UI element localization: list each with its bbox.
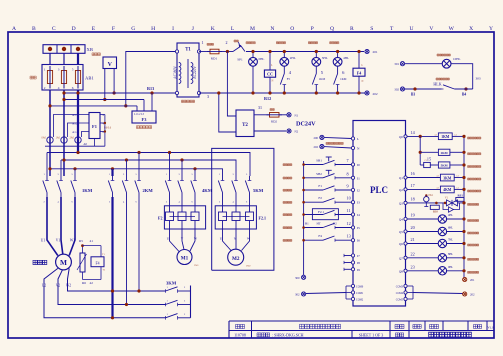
resistor R11 <box>456 198 464 202</box>
terminal 201 output <box>463 277 467 281</box>
breaker AB1 <box>42 65 83 91</box>
switch F2.1 <box>323 210 335 214</box>
svg-text:SP1: SP1 <box>237 58 243 62</box>
title text row1 <box>236 324 245 328</box>
wire input row 12 <box>304 227 323 229</box>
switch HT <box>323 223 335 227</box>
coil 3KM <box>440 174 454 181</box>
svg-text:I6: I6 <box>357 239 360 243</box>
wire F2.1 element 249.5 <box>249 197 251 212</box>
lamp 4HL <box>333 57 342 66</box>
wire V lead 1 <box>104 69 106 100</box>
svg-text:W2: W2 <box>66 284 71 288</box>
contact 1KM pole1 <box>46 176 48 181</box>
fuse RD1 <box>210 49 219 54</box>
terminal 202 input <box>320 145 324 149</box>
svg-text:R13: R13 <box>147 86 154 91</box>
fuse element AB1-2 <box>61 71 66 84</box>
contact 5KM pole1 <box>222 176 224 181</box>
thyristor V2 <box>449 207 454 212</box>
svg-text:B1: B1 <box>305 222 309 226</box>
wire F2.1 element 236 <box>235 197 237 212</box>
node L2 in <box>62 47 66 51</box>
wire 3KM star bar <box>190 286 192 318</box>
wire control bus bottom <box>199 92 365 94</box>
PLC pin Q6 <box>404 242 407 245</box>
wire Q0 branch down <box>419 136 421 165</box>
svg-text:L1 L2 L3: L1 L2 L3 <box>134 113 145 116</box>
wire M2 leads <box>223 233 232 251</box>
coil 5KM <box>438 162 450 168</box>
svg-text:F4: F4 <box>357 71 361 76</box>
svg-text:4KM: 4KM <box>443 188 452 192</box>
svg-text:M: M <box>250 26 255 32</box>
wire XB to AB1 phase3 <box>77 53 79 64</box>
wire 4KM coil to rail <box>454 188 464 190</box>
svg-text:110708: 110708 <box>234 333 246 338</box>
title block <box>229 320 494 322</box>
svg-text:Q7: Q7 <box>399 256 403 260</box>
PLC pin I5 <box>351 226 354 229</box>
wire T2 feed 1 <box>227 52 236 117</box>
wire 4HL to contact <box>337 66 339 74</box>
lamp 10HL <box>442 59 451 68</box>
svg-text:1KM: 1KM <box>441 135 450 139</box>
svg-text:COM5: COM5 <box>396 298 404 301</box>
contact 4KM pole1 <box>169 176 171 181</box>
wire CC to 5KM coil <box>430 164 438 166</box>
wire F2 element 182 <box>181 197 183 212</box>
svg-text:SHEET 1 OF 3: SHEET 1 OF 3 <box>359 333 383 338</box>
svg-text:3: 3 <box>207 94 209 99</box>
svg-text:F5: F5 <box>287 77 291 81</box>
svg-text:Q4: Q4 <box>399 218 403 222</box>
terminal block XB <box>43 45 85 54</box>
coil 4KM <box>440 186 454 193</box>
svg-text:8HL: 8HL <box>448 253 453 256</box>
svg-text:2HL: 2HL <box>290 56 296 60</box>
contact 4KM pole3 <box>194 176 196 181</box>
svg-text:Q2: Q2 <box>399 188 403 192</box>
PLC pin I1 <box>351 176 354 179</box>
svg-text:COM2: COM2 <box>356 298 364 301</box>
svg-text:L: L <box>231 26 235 32</box>
motor M <box>56 254 72 270</box>
svg-text:A2: A2 <box>434 134 437 137</box>
svg-text:I8: I8 <box>357 261 360 265</box>
PLC pin Q7 <box>404 256 407 259</box>
svg-text:I4: I4 <box>357 213 360 217</box>
svg-text:N: N <box>272 80 274 83</box>
svg-text:T1: T1 <box>185 47 191 52</box>
input ladder bus <box>303 161 305 275</box>
wire F2.1 elements tie <box>223 216 250 218</box>
wire 2KM out1 bold <box>111 197 113 318</box>
wire drop 3HL <box>315 52 317 58</box>
lamp 7HL <box>438 239 446 247</box>
svg-text:V1: V1 <box>56 239 61 243</box>
lamp 4HL <box>438 215 446 223</box>
PLC pin Q3 <box>404 201 407 204</box>
svg-text:L: L <box>357 137 359 141</box>
svg-text:M1: M1 <box>181 256 189 262</box>
svg-text:4HL: 4HL <box>448 214 453 217</box>
svg-text:F: F <box>112 26 115 32</box>
svg-text:21: 21 <box>411 237 415 242</box>
wire phase L3 vertical bold <box>77 90 79 152</box>
wire Q5 row <box>407 231 438 233</box>
wire 3KM coil to rail <box>454 177 464 179</box>
svg-text:R: R <box>350 26 354 32</box>
terminal N1 <box>287 113 291 117</box>
svg-text:F2.1: F2.1 <box>318 210 324 214</box>
svg-text:F2: F2 <box>318 196 322 200</box>
lamp 6HL <box>438 227 446 235</box>
wire 9HL to rail <box>447 270 464 272</box>
buzzer PK1 <box>424 197 429 202</box>
wire bus y92 left <box>64 92 177 94</box>
lamp 3HL <box>312 57 321 66</box>
wire control bus top <box>241 46 245 52</box>
svg-text:2: 2 <box>226 40 228 45</box>
wire T1 primary top feed <box>126 52 177 106</box>
svg-text:8: 8 <box>347 171 349 176</box>
svg-text:N1: N1 <box>295 114 299 118</box>
wire input row 13 <box>304 239 323 241</box>
svg-text:41: 41 <box>90 239 94 243</box>
PLC pin Q2 <box>404 188 407 191</box>
wire Q3 row <box>407 202 446 204</box>
svg-text:I: I <box>172 26 174 32</box>
wire T2 out 31 <box>254 114 270 116</box>
PLC pin I9 <box>351 268 354 271</box>
wire 1KM coil to rail <box>452 135 464 137</box>
wire M out W2 <box>68 268 166 291</box>
wire branch 2KM <box>420 151 438 153</box>
wire 2KM coil to rail <box>450 151 464 153</box>
svg-text:23: 23 <box>411 264 415 269</box>
svg-text:I0: I0 <box>357 163 360 167</box>
svg-text:13: 13 <box>347 234 351 239</box>
svg-text:B: B <box>32 26 36 32</box>
svg-text:HT: HT <box>317 222 321 226</box>
svg-text:F4: F4 <box>95 262 99 266</box>
svg-text:XB: XB <box>87 47 93 52</box>
wire 0HL down <box>252 67 254 94</box>
current transformer TA2 <box>61 137 67 143</box>
wire F1 right 4 <box>100 122 105 124</box>
svg-text:COM3: COM3 <box>396 285 404 288</box>
contact 3KM pole2 <box>166 300 178 304</box>
wire F1 A0 <box>94 139 96 147</box>
switch F1 <box>323 186 335 190</box>
svg-text:V1.0: V1.0 <box>487 325 494 329</box>
wire F2 elements tie <box>170 216 196 218</box>
svg-text:20: 20 <box>411 225 415 230</box>
svg-text:Q: Q <box>330 26 334 32</box>
svg-text:M: M <box>60 258 67 267</box>
wire 202 to N <box>324 147 351 148</box>
terminal 302 right <box>400 87 404 91</box>
contact 1KM <box>334 74 338 85</box>
svg-text:X: X <box>469 26 473 32</box>
lamp 9HL <box>438 267 446 275</box>
wire 4KM pole feeds <box>169 153 171 177</box>
svg-text:R12: R12 <box>264 96 271 101</box>
wire R5-F4 bottom <box>83 279 102 281</box>
wire phase line B <box>61 160 236 176</box>
svg-text:202: 202 <box>314 145 319 149</box>
wire F2.1 element 222.5 <box>222 197 224 212</box>
overload relay F2 <box>164 206 205 229</box>
contact 1KM pole3 <box>74 176 76 181</box>
wire M out U2 <box>44 268 166 317</box>
wire M1 leads <box>170 233 180 252</box>
fuse element AB1-1 <box>47 71 52 84</box>
svg-text:COM0: COM0 <box>356 285 364 288</box>
svg-text:16: 16 <box>411 171 415 176</box>
svg-text:A2: A2 <box>436 175 439 178</box>
svg-text:K: K <box>211 26 215 32</box>
enclosure box M2 branch <box>212 148 274 270</box>
svg-text:10HL: 10HL <box>453 57 460 61</box>
output rail <box>463 136 465 277</box>
wire 302 to COM <box>306 293 346 294</box>
switch F2 <box>323 198 335 202</box>
wire phase line A <box>47 153 250 177</box>
wire F3 lead L2 <box>143 100 145 112</box>
svg-text:S: S <box>370 26 373 32</box>
svg-text:17: 17 <box>411 183 415 188</box>
resistor R5 <box>80 253 85 272</box>
svg-text:B3: B3 <box>411 93 415 97</box>
wire XB to AB1 phase1 <box>49 53 51 64</box>
svg-text:PK1: PK1 <box>429 194 434 197</box>
triac V1 <box>447 200 458 206</box>
svg-text:B2: B2 <box>333 222 337 226</box>
svg-text:I7: I7 <box>357 254 360 258</box>
wire Q1 row <box>407 177 440 179</box>
svg-text:3KM: 3KM <box>443 176 452 180</box>
svg-text:200: 200 <box>314 136 319 140</box>
wire Q6 row <box>407 243 438 245</box>
wire F1 A1.2 <box>68 123 90 137</box>
svg-text:31: 31 <box>258 105 262 110</box>
fuse RD2 <box>270 113 280 118</box>
wire 1KM out V1 <box>61 197 63 254</box>
wire 5KM coil to rail <box>450 164 464 166</box>
svg-text:2KM: 2KM <box>143 188 154 193</box>
PLC pin I7 <box>351 254 354 257</box>
svg-text:7HL: 7HL <box>448 239 453 242</box>
terminal N2 <box>287 129 291 133</box>
svg-text:M2: M2 <box>232 256 240 262</box>
PLC controller box <box>353 121 406 307</box>
svg-text:P: P <box>311 26 314 32</box>
svg-text:5KM: 5KM <box>441 164 448 168</box>
svg-text:A0: A0 <box>83 142 87 146</box>
svg-text:F3: F3 <box>142 117 148 122</box>
motor M1 <box>177 250 192 265</box>
wire drop 0HL <box>252 52 254 58</box>
wire T2 feed 2 <box>219 93 236 132</box>
svg-text:V2: V2 <box>56 284 61 288</box>
svg-text:CC: CC <box>267 72 273 77</box>
svg-text:1: 1 <box>44 67 46 71</box>
node R13 <box>150 91 153 94</box>
contact 5KM pole2 <box>235 176 237 181</box>
svg-text:Q8: Q8 <box>399 269 403 273</box>
svg-text:N: N <box>270 26 274 32</box>
contact 1KM pole2 <box>60 176 62 181</box>
PLC COM0-2 pins <box>351 284 354 287</box>
switch SB1 <box>323 160 335 164</box>
PLC pin I3 <box>351 201 354 204</box>
PLC COM3-5 pins <box>404 284 407 287</box>
svg-text:3M2: 3M2 <box>246 265 251 268</box>
wire 301 to 10HL <box>405 63 443 65</box>
module CC small <box>424 162 431 167</box>
svg-text:E: E <box>92 26 96 32</box>
svg-text:5: 5 <box>72 67 74 71</box>
svg-text:10: 10 <box>347 196 351 201</box>
svg-text:W: W <box>449 26 455 32</box>
PLC pin L <box>351 137 354 140</box>
current transformer TA3 <box>75 137 81 143</box>
wire phase L2 vertical <box>63 90 65 176</box>
svg-text:9: 9 <box>347 184 349 189</box>
fuse element AB1-3 <box>75 71 80 84</box>
svg-text:I9: I9 <box>357 268 360 272</box>
svg-text:R6: R6 <box>82 281 86 285</box>
svg-text:AB1: AB1 <box>85 76 94 81</box>
transformer T1 <box>177 43 199 97</box>
wire F1 right 2 <box>100 114 105 116</box>
wire 2KM out3 <box>138 197 140 291</box>
svg-text:A1.2: A1.2 <box>72 122 78 126</box>
wire F1 output drop <box>104 115 106 147</box>
svg-text:300: 300 <box>295 276 300 280</box>
svg-text:301: 301 <box>394 62 399 66</box>
svg-text:U1: U1 <box>41 239 46 243</box>
svg-text:2KM: 2KM <box>441 151 448 155</box>
svg-text:1KM: 1KM <box>340 77 347 81</box>
svg-text:5KM: 5KM <box>253 188 264 193</box>
PLC pin Q1 <box>404 176 407 179</box>
svg-text:9HL: 9HL <box>448 266 453 269</box>
svg-text:202: 202 <box>470 293 475 297</box>
wire drop 2HL <box>283 52 285 58</box>
wire F3 lead L3 <box>151 93 153 111</box>
wire phase L1 vertical <box>49 90 51 176</box>
svg-text:1: 1 <box>202 40 204 45</box>
svg-text:2A0: 2A0 <box>70 137 75 140</box>
contact F5 <box>280 74 284 85</box>
wire T2 out 2 <box>254 130 286 132</box>
wire RD1 to SP1 <box>219 51 233 53</box>
wire M out V2 <box>58 270 166 305</box>
svg-text:V: V <box>429 26 433 32</box>
svg-text:SB1: SB1 <box>316 159 322 163</box>
wire F2 element 195 <box>194 197 196 212</box>
terminal 202 output <box>463 292 467 296</box>
svg-text:I1: I1 <box>357 176 360 180</box>
wire Q0 row <box>407 135 438 137</box>
svg-text:1KM: 1KM <box>319 77 326 81</box>
svg-text:: SHRX-DKG.SCH: : SHRX-DKG.SCH <box>272 333 304 338</box>
wire 2KM pole feeds <box>126 160 128 176</box>
svg-text:B4: B4 <box>462 93 466 97</box>
wire contact 2HL down <box>283 85 285 94</box>
svg-text:Q1: Q1 <box>399 176 403 180</box>
wire input row 8 <box>304 177 323 179</box>
wire drop 4HL <box>337 52 339 58</box>
svg-text:T: T <box>390 26 394 32</box>
wire F1 A1.3 <box>82 132 90 138</box>
coil 2KM <box>438 149 450 155</box>
svg-text:12: 12 <box>347 221 351 226</box>
node L3 in <box>76 47 80 51</box>
wire Q2 row <box>407 188 440 190</box>
wire V lead 2 <box>113 69 115 94</box>
wire HLK to B3 <box>405 88 442 90</box>
svg-text:F2.1: F2.1 <box>259 216 266 221</box>
lamp 0HL <box>249 57 258 66</box>
svg-text:F4: F4 <box>318 234 322 238</box>
wire XB to AB1 phase2 <box>63 53 65 64</box>
wire contact 4HL down <box>337 85 339 94</box>
switch SB2 <box>323 174 335 178</box>
svg-text:201: 201 <box>470 278 475 282</box>
module F4 top <box>353 68 365 76</box>
svg-text:R11: R11 <box>458 193 464 197</box>
svg-text:RD2: RD2 <box>271 120 277 124</box>
svg-text:Q6: Q6 <box>399 242 403 246</box>
svg-text:H: H <box>151 26 155 32</box>
wire CC down <box>269 77 271 93</box>
svg-text:6HL: 6HL <box>448 227 453 230</box>
svg-text:T2: T2 <box>242 123 248 128</box>
svg-text:I3: I3 <box>357 201 360 205</box>
svg-text:302: 302 <box>295 293 300 297</box>
coil 1KM <box>438 133 452 140</box>
wire 2KM out2 <box>126 197 128 305</box>
svg-text:V: V <box>108 62 113 68</box>
svg-text:3HL: 3HL <box>322 56 328 60</box>
terminal 200 <box>320 135 324 139</box>
lamp 8HL <box>438 254 446 262</box>
wire 200 to L <box>324 137 351 138</box>
wire input row 7 <box>304 164 323 166</box>
wire drop CC <box>269 52 271 71</box>
wire F4a down <box>358 76 360 93</box>
wire 3HL to contact <box>315 66 317 74</box>
wire 2KM pole1 bold drop <box>111 169 113 176</box>
svg-text:RD1: RD1 <box>211 57 218 61</box>
svg-text:3KM: 3KM <box>166 281 177 286</box>
svg-text:A2: A2 <box>436 187 439 190</box>
contact 5KM pole3 <box>249 176 251 181</box>
wire phase line C <box>50 169 223 176</box>
wire COM right to 202 <box>413 293 463 294</box>
terminal 302 bottom <box>302 292 306 296</box>
svg-text:Q0: Q0 <box>399 135 403 139</box>
relay F3 phase protector <box>132 111 156 123</box>
node B4 <box>464 87 467 90</box>
wire 2HL to contact <box>283 66 285 74</box>
wire 7HL to rail <box>447 243 464 245</box>
relay F1 <box>89 113 100 139</box>
